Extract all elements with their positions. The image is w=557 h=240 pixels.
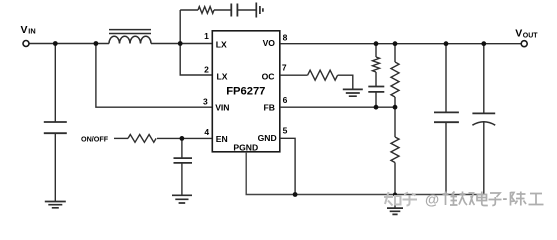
svg-text:3: 3 xyxy=(203,96,208,106)
svg-text:IN: IN xyxy=(28,27,35,36)
svg-text:EN: EN xyxy=(216,134,228,144)
svg-text:8: 8 xyxy=(283,32,288,42)
svg-text:FP6277: FP6277 xyxy=(226,86,265,98)
svg-text:PGND: PGND xyxy=(233,142,258,152)
svg-text:VIN: VIN xyxy=(215,103,229,113)
svg-text:LX: LX xyxy=(217,71,228,81)
svg-text:V: V xyxy=(515,28,522,40)
svg-text:ON/OFF: ON/OFF xyxy=(81,134,109,143)
svg-text:VO: VO xyxy=(263,38,276,48)
svg-text:FB: FB xyxy=(264,103,275,113)
svg-text:OUT: OUT xyxy=(523,32,539,39)
svg-text:@: @ xyxy=(425,193,439,209)
svg-text:6: 6 xyxy=(283,95,288,105)
svg-text:V: V xyxy=(21,24,28,36)
svg-text:1: 1 xyxy=(204,31,209,41)
svg-text:GND: GND xyxy=(258,133,277,143)
svg-text:4: 4 xyxy=(204,127,209,137)
svg-text:LX: LX xyxy=(216,39,227,49)
svg-text:OC: OC xyxy=(262,71,275,81)
svg-text:2: 2 xyxy=(204,65,209,75)
svg-text:5: 5 xyxy=(283,126,288,136)
svg-text:-: - xyxy=(503,191,508,207)
svg-text:7: 7 xyxy=(282,63,287,73)
